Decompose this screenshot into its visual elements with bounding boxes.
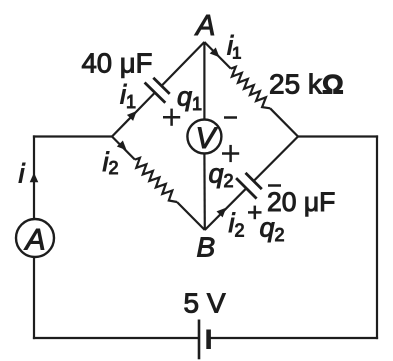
wire: upper segment of lower-left resistor branch [112, 137, 135, 160]
battery 5V: long plate [198, 320, 201, 360]
wire: bottom right [209, 337, 379, 339]
svg-text:25 kΩ: 25 kΩ [269, 69, 344, 100]
svg-text:i: i [19, 159, 26, 189]
wire: upper segment of 25k branch [204, 42, 230, 69]
svg-text:V: V [195, 122, 218, 155]
resistor R1 25kOhm zigzag [231, 67, 270, 109]
svg-text:i1: i1 [120, 80, 136, 113]
wire: right vertical [376, 135, 378, 339]
capacitor C1 40uF: long plate (+) [145, 83, 166, 103]
wire: lower segment of 20uF branch [205, 188, 247, 230]
svg-text:i2: i2 [229, 208, 245, 241]
wire: voltmeter to B [203, 154, 206, 231]
wire: lower segment of lower-left resistor branch [177, 202, 205, 230]
svg-text:5 V: 5 V [184, 288, 226, 319]
svg-text:A: A [23, 224, 45, 257]
wire: left vertical upper [33, 135, 35, 219]
plus sign (voltmeter bottom) [222, 152, 239, 155]
wire: top-left horizontal [33, 135, 112, 137]
wire: top-right horizontal [298, 135, 378, 137]
capacitor C2 20uF: short plate (-) [246, 173, 262, 189]
wire: lower segment of 25k branch [270, 108, 298, 136]
ammeter A [16, 219, 54, 257]
current arrow i (left wire) [30, 173, 39, 183]
svg-text:i2: i2 [103, 147, 119, 178]
wire: left vertical lower [33, 257, 35, 339]
voltmeter V [187, 120, 221, 154]
wire: bottom left [33, 337, 199, 339]
current arrow i1 (from A) [210, 48, 220, 58]
svg-text:q2: q2 [260, 213, 285, 246]
wire: upper segment of 20uF branch [254, 137, 298, 182]
wire: lower segment of 40uF branch [112, 93, 155, 137]
svg-text:i1: i1 [227, 31, 241, 63]
resistor R2 zigzag [135, 158, 177, 202]
wire: A to voltmeter [203, 42, 205, 120]
current arrow i2 (from left vertex) [117, 141, 127, 151]
current arrow i2 (toward 20uF) [217, 208, 227, 218]
svg-text:q1: q1 [177, 82, 202, 115]
svg-text:q2: q2 [209, 159, 234, 192]
svg-text:A: A [194, 10, 215, 42]
capacitor C2 20uF: long plate (+) [236, 178, 257, 199]
wire: upper segment of 40uF branch [162, 42, 205, 86]
svg-text:B: B [197, 232, 216, 263]
svg-text:20 μF: 20 μF [267, 187, 335, 217]
minus sign (voltmeter top) [224, 116, 237, 119]
plus sign near C1 [163, 116, 180, 119]
svg-text:40 μF: 40 μF [82, 48, 153, 79]
current arrow i1 (into 40uF) [127, 111, 137, 121]
minus sign near C2 [268, 184, 281, 187]
capacitor C1 40uF: short plate (-) [153, 78, 169, 94]
plus sign near q2 (lower) [248, 211, 262, 214]
battery 5V: short plate [206, 330, 211, 350]
